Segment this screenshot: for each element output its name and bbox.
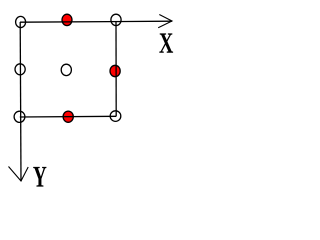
X axis (collinear with top edge of element) [20,15,172,28]
node 6 (mid-right, filled red) [110,65,120,76]
node 3 (corner, top-right, open) [111,14,121,25]
wire: bottom edge of element [20,115,116,118]
label Y [33,167,46,187]
node 9 (corner, bottom-right, open) [110,111,121,122]
node 2 (mid-top, filled red) [62,14,72,25]
node 1 (corner, top-left, open) [16,16,26,27]
node 8 (mid-bottom, filled red) [63,111,73,122]
node 5 (center, open) [61,64,71,75]
wire: right edge of element [115,21,117,117]
label X [159,33,173,52]
node 7 (corner, bottom-left, open) [14,111,25,122]
node 4 (mid-left, open) [15,64,25,75]
Y axis (collinear with left edge of element) [9,22,29,181]
